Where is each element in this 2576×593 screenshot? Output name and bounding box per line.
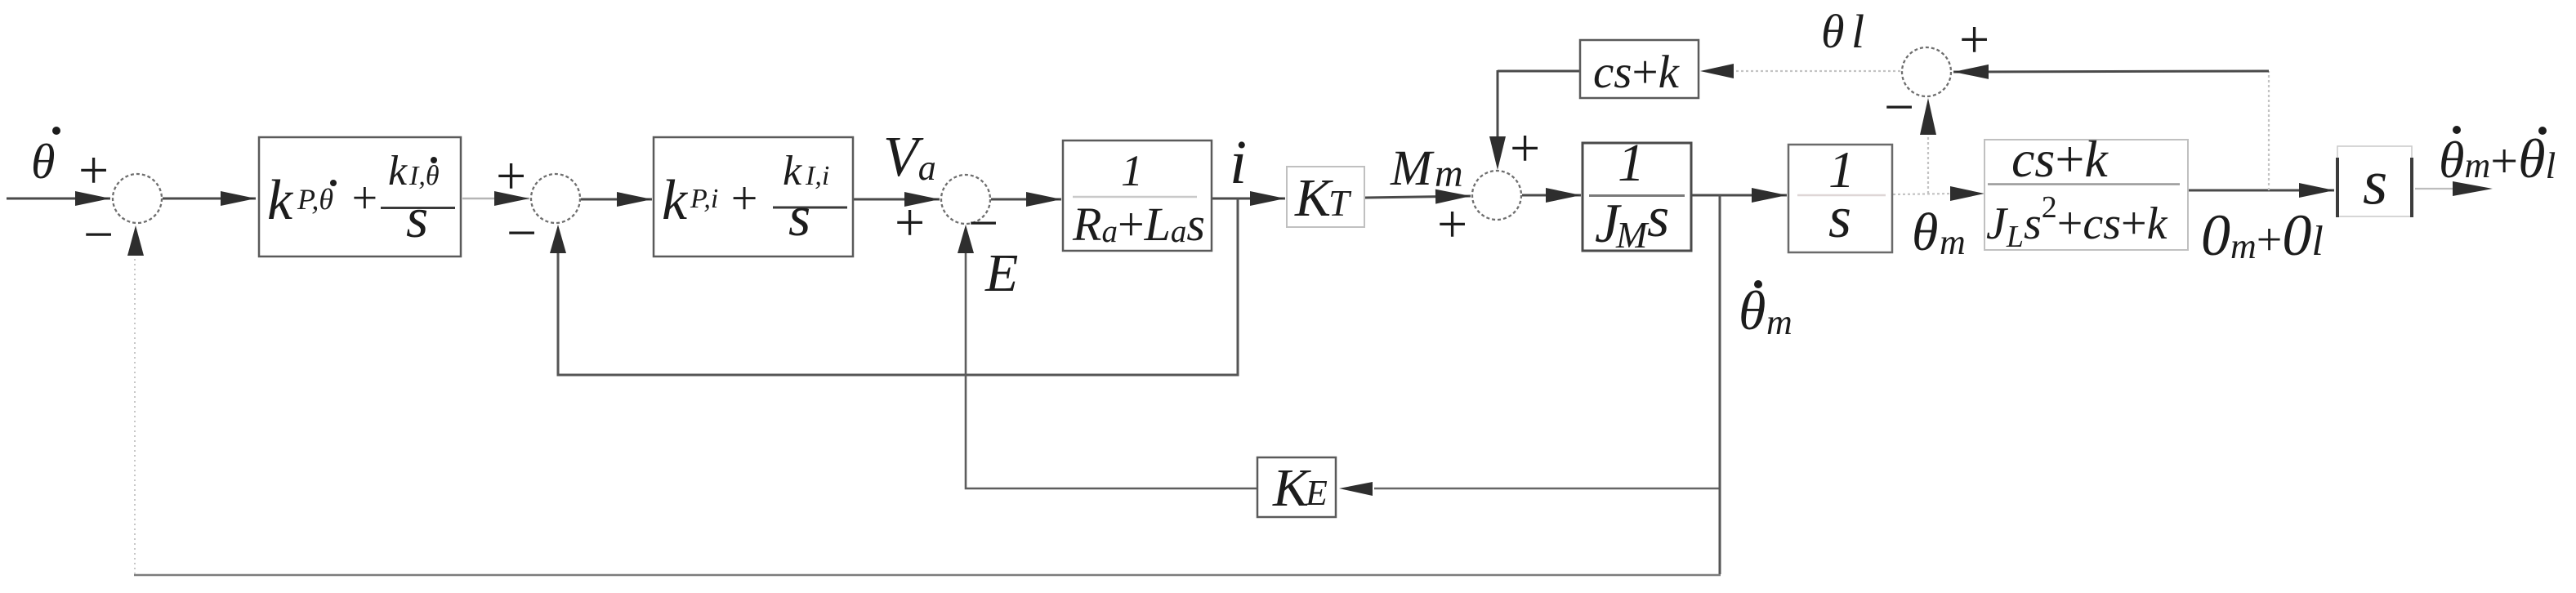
svg-text:E: E	[1305, 473, 1328, 513]
svg-text:cs+k: cs+k	[2011, 130, 2109, 188]
svg-text:1: 1	[1618, 133, 1645, 193]
svg-text:E: E	[984, 243, 1018, 303]
svg-text:l: l	[1851, 5, 1864, 58]
svg-text:T: T	[1328, 182, 1352, 224]
svg-text:s: s	[788, 185, 810, 248]
svg-text:+: +	[493, 146, 529, 206]
svg-text:s: s	[1828, 185, 1851, 250]
svg-text:θ: θ	[31, 135, 55, 189]
svg-text:−: −	[503, 203, 540, 263]
svg-text:+: +	[1956, 10, 1993, 69]
svg-text:s: s	[1647, 186, 1669, 249]
svg-text:+: +	[75, 140, 112, 200]
svg-text:P,i: P,i	[690, 184, 718, 214]
svg-text:θ: θ	[1821, 5, 1845, 58]
svg-text:m: m	[1435, 152, 1463, 195]
svg-text:−: −	[80, 205, 117, 265]
svg-text:s: s	[406, 187, 428, 250]
svg-text:+: +	[1507, 118, 1543, 178]
svg-text:k: k	[388, 148, 408, 194]
svg-text:m: m	[1940, 222, 1966, 262]
svg-text:θ: θ	[1739, 279, 1766, 341]
svg-text:1: 1	[1121, 146, 1143, 195]
svg-text:k: k	[267, 169, 294, 232]
svg-text:M: M	[1390, 141, 1435, 196]
svg-text:k: k	[662, 169, 689, 232]
svg-text:K: K	[1294, 168, 1333, 228]
svg-text:+: +	[349, 173, 380, 224]
svg-text:M: M	[1615, 214, 1650, 256]
svg-text:−: −	[1881, 78, 1917, 137]
svg-text:s: s	[2363, 146, 2387, 217]
svg-text:θm+θl: θm+θl	[2439, 127, 2556, 189]
svg-text:+: +	[891, 193, 928, 252]
svg-text:+: +	[728, 172, 760, 225]
svg-text:m: m	[1766, 302, 1792, 342]
svg-text:cs+k: cs+k	[1593, 47, 1681, 98]
svg-text:i: i	[1230, 128, 1247, 197]
svg-text:+: +	[1434, 194, 1471, 254]
svg-text:P,θ: P,θ	[297, 183, 333, 216]
svg-text:θ: θ	[1912, 203, 1938, 262]
